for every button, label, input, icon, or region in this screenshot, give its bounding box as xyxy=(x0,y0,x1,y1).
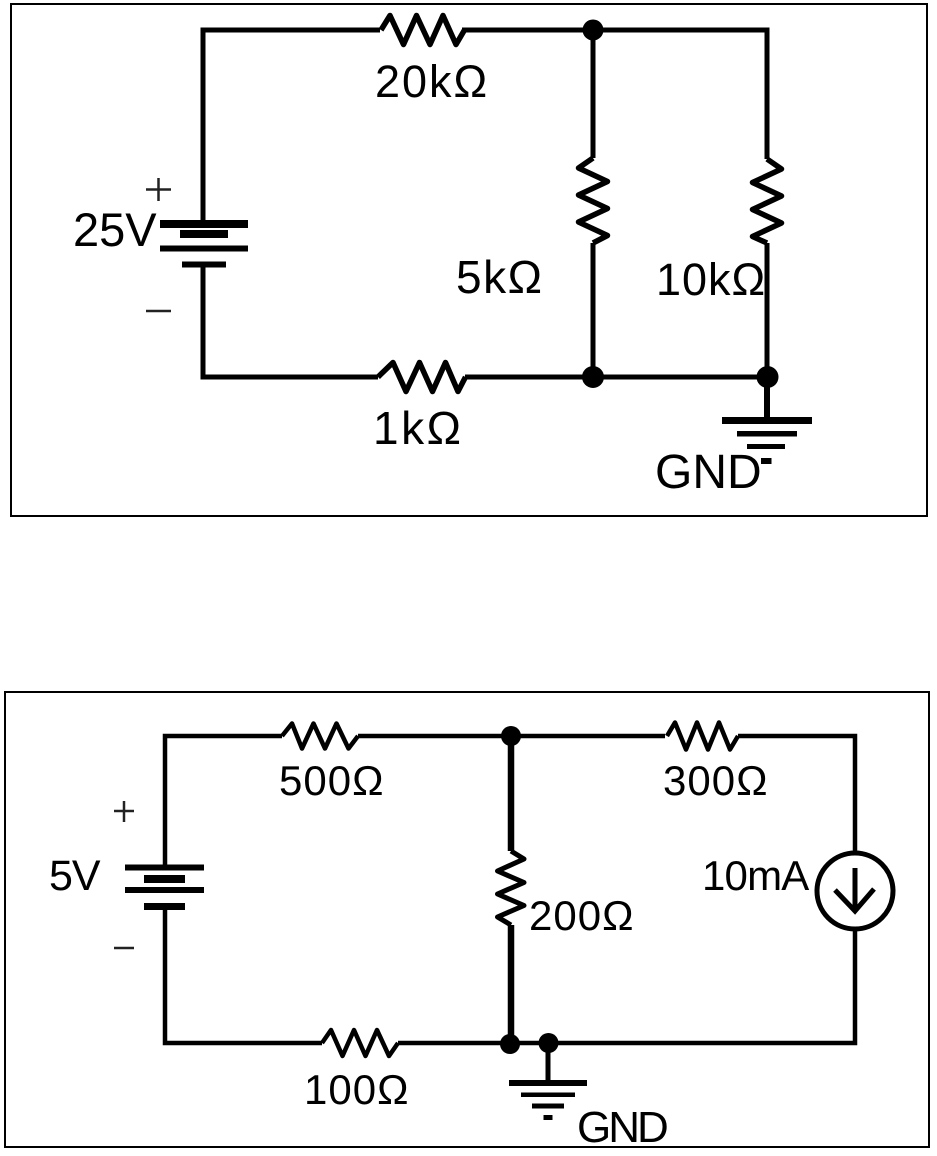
wire bottom-left corner (panel 1) xyxy=(203,266,378,377)
svg-text:500Ω: 500Ω xyxy=(279,757,384,804)
ground symbol bar 2 (panel 1) xyxy=(737,431,797,437)
node A junction dot (top middle) xyxy=(583,20,604,41)
wire bottom-left corner (panel 2) xyxy=(165,909,322,1043)
ground symbol bar 4 (panel 1) xyxy=(761,458,772,464)
battery V2 plate 4 short xyxy=(144,903,185,910)
ground stub wire (panel 1) xyxy=(764,377,770,421)
svg-text:100Ω: 100Ω xyxy=(304,1066,409,1113)
battery V2 plate 1 long xyxy=(125,865,204,871)
svg-text:GND: GND xyxy=(655,446,762,499)
wire middle vertical upper (panel 1) xyxy=(591,30,596,158)
svg-text:200Ω: 200Ω xyxy=(529,892,634,939)
node D junction dot (top middle, panel 2) xyxy=(501,726,521,746)
resistor 100 zigzag xyxy=(322,1030,398,1056)
minus sign (panel 1) xyxy=(146,310,171,313)
resistor 200 zigzag xyxy=(498,851,525,925)
svg-text:20kΩ: 20kΩ xyxy=(375,56,489,107)
wire top-right corner (panel 2) xyxy=(738,736,855,851)
ground symbol bar 1 (panel 2) xyxy=(509,1080,587,1086)
wire middle vertical lower (panel 1) xyxy=(591,243,596,377)
node C junction dot (bottom right) xyxy=(757,366,779,388)
ground symbol bar 2 (panel 2) xyxy=(521,1093,575,1098)
battery V2 plate 2 short xyxy=(144,875,185,883)
svg-text:25V: 25V xyxy=(73,203,157,256)
svg-text:300Ω: 300Ω xyxy=(663,757,768,804)
wire bottom-right horizontal (panel 1) xyxy=(465,375,768,380)
node F junction dot (ground tap, panel 2) xyxy=(539,1033,559,1053)
resistor 20k zigzag xyxy=(381,16,465,45)
wire middle vertical upper (panel 2) xyxy=(508,736,515,851)
wire top-right corner (panel 1) xyxy=(462,30,767,159)
battery V1 plate 4 short xyxy=(182,262,226,268)
ground symbol bar 3 (panel 2) xyxy=(532,1104,564,1109)
node B junction dot (bottom middle) xyxy=(582,366,604,388)
svg-text:5kΩ: 5kΩ xyxy=(456,251,543,303)
node E junction dot (bottom middle, panel 2) xyxy=(500,1034,520,1054)
resistor 1k zigzag xyxy=(378,363,466,392)
wire top-left corner (panel 2) xyxy=(165,736,282,865)
plus sign (panel 1) xyxy=(146,178,171,201)
current source I1 arrowhead xyxy=(835,889,874,911)
ground symbol bar 4 (panel 2) xyxy=(544,1115,553,1120)
minus sign (panel 2) xyxy=(114,947,134,950)
battery V2 plate 3 long xyxy=(125,887,204,893)
current source I1 circle xyxy=(817,853,893,929)
svg-text:5V: 5V xyxy=(49,852,101,900)
ground symbol bar 3 (panel 1) xyxy=(747,444,785,449)
wire middle vertical lower (panel 2) xyxy=(508,925,515,1043)
frame panel 1 xyxy=(11,4,927,516)
svg-text:1kΩ: 1kΩ xyxy=(373,402,463,454)
ground stub wire (panel 2) xyxy=(546,1043,551,1081)
resistor 300 zigzag xyxy=(667,723,738,750)
battery V1 plate 1 long xyxy=(160,220,248,228)
resistor 5k zigzag xyxy=(579,158,608,243)
ground symbol bar 1 (panel 1) xyxy=(722,417,812,424)
wire top-middle horizontal (panel 2) xyxy=(358,734,665,739)
wire top-left corner (panel 1) xyxy=(203,30,380,222)
wire right vertical lower (panel 1) xyxy=(765,243,770,377)
plus sign (panel 2) xyxy=(114,801,134,822)
resistor 10k zigzag xyxy=(753,159,782,243)
svg-text:GND: GND xyxy=(577,1103,667,1152)
wire bottom-right corner (panel 2) xyxy=(398,929,855,1043)
svg-text:10kΩ: 10kΩ xyxy=(656,254,766,305)
frame panel 2 xyxy=(5,692,929,1147)
resistor 500 zigzag xyxy=(282,724,358,749)
battery V1 plate 2 short xyxy=(180,230,228,238)
battery V1 plate 3 long xyxy=(160,246,248,252)
svg-text:10mA: 10mA xyxy=(702,852,809,899)
current source I1 arrow shaft xyxy=(853,868,858,908)
